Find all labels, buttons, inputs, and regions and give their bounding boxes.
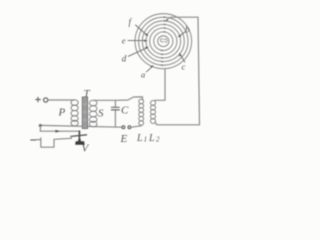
key lever crossbar xyxy=(71,135,87,137)
svg-text:e: e xyxy=(122,36,126,46)
wire plus to primary xyxy=(48,99,74,101)
transformer core T xyxy=(82,97,87,129)
key base contact xyxy=(75,139,85,144)
coil L1 xyxy=(139,99,144,125)
bottom rail wire xyxy=(40,125,121,127)
svg-text:V: V xyxy=(82,143,90,155)
right vertical wire xyxy=(198,17,200,125)
svg-text:P: P xyxy=(58,107,66,119)
svg-text:f: f xyxy=(129,17,133,27)
svg-text:c: c xyxy=(182,62,186,72)
spiral center hooks xyxy=(160,39,167,43)
svg-text:a: a xyxy=(141,70,145,80)
svg-text:L: L xyxy=(148,133,155,144)
capacitor C stubs xyxy=(114,100,116,127)
secondary top rail xyxy=(94,97,143,100)
svg-text:L: L xyxy=(136,133,143,144)
svg-text:C: C xyxy=(121,105,129,117)
spark gap knob 1 xyxy=(122,126,125,129)
spark gap knob 2 xyxy=(128,126,131,129)
top wire to spiral xyxy=(167,17,198,20)
winding direction arrows xyxy=(160,16,166,66)
leader d xyxy=(128,48,147,57)
wire L2 top to spiral lead xyxy=(155,70,165,101)
key vertical bar xyxy=(78,131,80,140)
leader b xyxy=(179,32,185,36)
leader f xyxy=(136,25,148,35)
arrow at spiral top lead xyxy=(166,19,168,22)
minus lead wire xyxy=(36,136,71,147)
svg-text:S: S xyxy=(98,108,104,120)
svg-text:b: b xyxy=(185,25,190,35)
svg-text:2: 2 xyxy=(156,136,160,144)
wire down from junction xyxy=(39,126,41,132)
current arrow on wire xyxy=(55,130,60,133)
svg-text:d: d xyxy=(122,54,127,64)
secondary coil S xyxy=(89,100,97,127)
svg-text:E: E xyxy=(120,133,128,145)
spiral coil turns xyxy=(135,14,192,69)
wire L2 bottom right rail xyxy=(155,122,199,125)
capacitor C plates xyxy=(111,107,119,110)
leader a xyxy=(147,66,153,72)
junction dot xyxy=(39,124,42,127)
wire to key top xyxy=(40,130,79,132)
coil L2 xyxy=(151,101,156,124)
leader e xyxy=(128,40,146,42)
primary coil P xyxy=(71,100,78,126)
minus terminal xyxy=(31,139,36,141)
wire gap to L1 xyxy=(131,126,141,127)
svg-text:1: 1 xyxy=(144,136,148,144)
svg-text:T: T xyxy=(84,88,91,100)
leader c xyxy=(180,54,185,62)
terminal circle xyxy=(44,98,48,102)
battery plus terminal xyxy=(36,97,41,101)
